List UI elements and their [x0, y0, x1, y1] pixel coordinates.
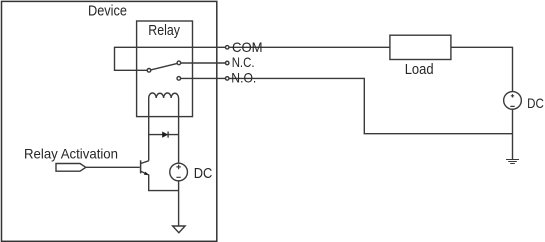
ground (signal) left triangle [173, 226, 186, 233]
transistor Q1 emitter arrow [144, 172, 149, 176]
wire: N.O. contact through label, down and right to DC negative rail [181, 78, 513, 133]
transistor Q1 emitter and lead to DC negative rail [141, 171, 179, 190]
relay box [137, 21, 193, 117]
relay coil legs [149, 98, 179, 163]
transistor Q1 base bar [140, 160, 142, 173]
svg-text:Device: Device [88, 3, 127, 20]
wire: DC source right bottom to ground [512, 109, 514, 159]
svg-text:COM: COM [232, 39, 263, 55]
DC source right polarity marks [510, 94, 514, 106]
DC source left polarity marks [176, 165, 180, 178]
load box [390, 35, 451, 59]
switch pole contact circle [147, 69, 151, 73]
svg-text:N.C.: N.C. [232, 54, 255, 70]
svg-text:Load: Load [405, 62, 434, 78]
N.O. terminal circle [225, 77, 229, 81]
DC source right (circle) [504, 92, 522, 110]
COM terminal circle [225, 46, 229, 50]
switch blade (pole to N.C. contact) [151, 63, 178, 70]
wire: DC source left bottom to ground [178, 181, 180, 226]
N.C. contact circle [177, 61, 181, 65]
svg-text:Relay Activation: Relay Activation [24, 146, 118, 162]
svg-text:DC: DC [527, 95, 544, 111]
signal flag: relay activation input [56, 164, 86, 172]
transistor Q1 base lead [86, 166, 140, 168]
device enclosure box [2, 1, 217, 241]
N.C. terminal circle [225, 61, 229, 65]
transistor Q1 collector [141, 161, 149, 164]
relay coil windings [149, 93, 179, 98]
svg-text:DC: DC [194, 166, 213, 182]
svg-text:Relay: Relay [148, 22, 180, 39]
wire: COM run from load left edge back through label into relay, left loop to pole [115, 47, 390, 70]
svg-text:N.O.: N.O. [231, 69, 256, 85]
wire: COM from load right edge to DC source top [451, 47, 513, 91]
wire: N.C. contact to terminal [181, 62, 226, 64]
flyback diode wire [149, 134, 179, 136]
DC source left (circle) [170, 163, 188, 181]
ground (earth) right [506, 160, 519, 164]
N.O. contact circle [177, 77, 181, 81]
flyback diode symbol [162, 132, 168, 138]
